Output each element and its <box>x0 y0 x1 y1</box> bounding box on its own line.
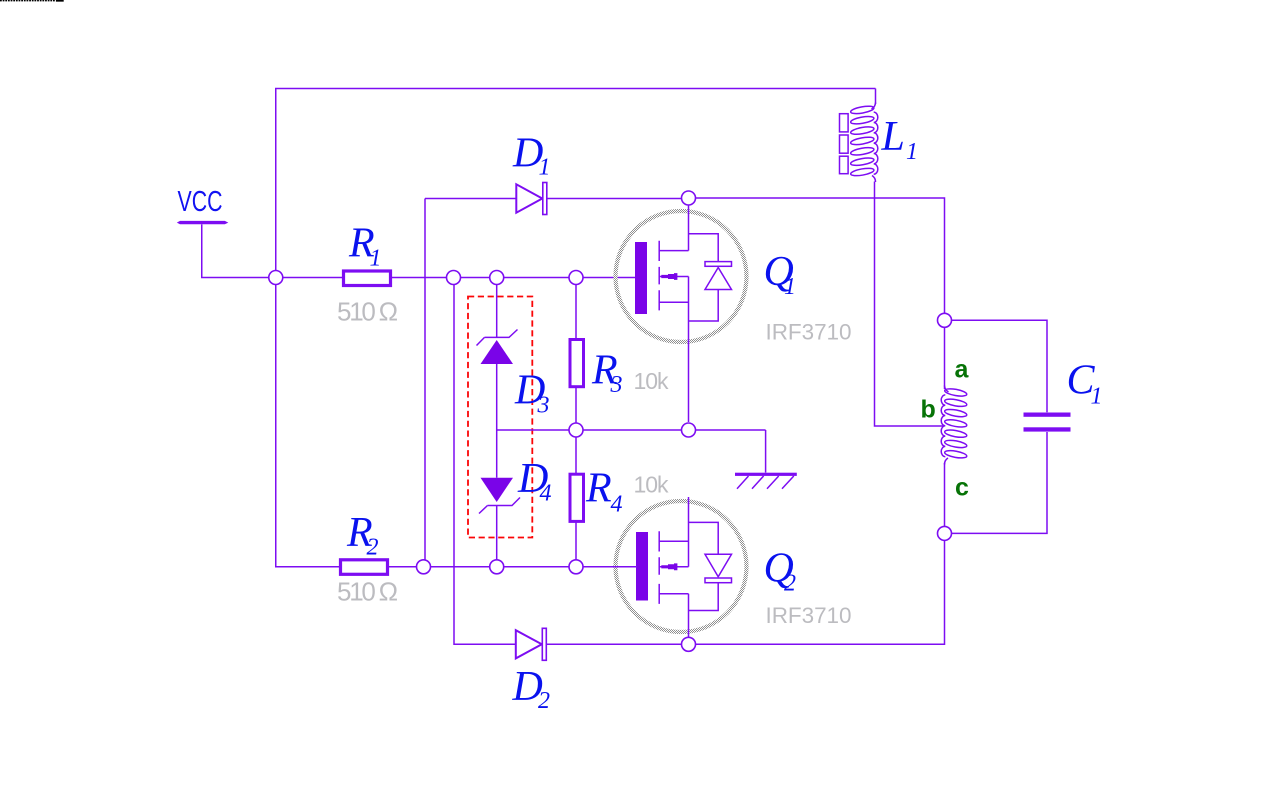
resistor R4 <box>570 430 669 567</box>
wire Q2 drain to bottom row <box>688 631 690 644</box>
node Q2 gate / R4 bottom <box>569 560 583 574</box>
zener D3 <box>477 285 550 430</box>
node winding bottom <box>938 526 952 540</box>
node Q1 drain top <box>682 191 696 205</box>
wire D2 anode riser <box>454 285 516 644</box>
node winding top <box>938 313 952 327</box>
svg-text:3: 3 <box>610 372 623 398</box>
wire Q1 gate bus <box>391 277 637 279</box>
svg-text:10k: 10k <box>634 368 670 394</box>
svg-text:510 Ω: 510 Ω <box>337 297 398 327</box>
svg-text:2: 2 <box>784 571 796 597</box>
svg-text:b: b <box>921 396 936 424</box>
zener pair dashed box <box>468 297 532 538</box>
inductor L1 <box>840 89 919 183</box>
wire Q2 gate bus <box>388 566 637 568</box>
wire D1 anode down to Q2 gate bus <box>424 199 426 567</box>
svg-text:1: 1 <box>539 155 551 181</box>
wire R1 left lead <box>283 277 343 279</box>
svg-text:c: c <box>955 474 969 502</box>
wire bottom row to right bus <box>696 540 945 644</box>
wire center row <box>497 429 766 431</box>
node mid Q1/Q2 <box>682 423 696 437</box>
capacitor C1 <box>952 320 1103 533</box>
wire VCC node to R2 <box>276 278 341 567</box>
svg-text:VCC: VCC <box>178 186 223 218</box>
svg-text:2: 2 <box>367 535 379 561</box>
resistor R2 <box>337 510 398 607</box>
svg-text:R: R <box>585 466 612 512</box>
svg-text:1: 1 <box>370 245 382 271</box>
svg-text:510 Ω: 510 Ω <box>337 577 398 607</box>
transistor Q2 <box>616 497 852 632</box>
wire top node to right bus <box>696 198 945 314</box>
zener D4 <box>479 430 552 567</box>
node mid R3/R4 <box>569 423 583 437</box>
power symbol VCC <box>177 186 269 278</box>
svg-text:1: 1 <box>906 139 918 165</box>
svg-text:10k: 10k <box>634 472 670 498</box>
svg-text:2: 2 <box>538 688 550 714</box>
transformer winding a-b-c <box>941 328 967 527</box>
resistor R1 <box>337 221 398 327</box>
resistor R3 <box>570 285 669 430</box>
svg-text:a: a <box>955 356 970 384</box>
diode D1 <box>425 131 682 215</box>
svg-text:4: 4 <box>540 481 552 507</box>
node Q1 gate / zener top <box>490 271 504 285</box>
node Q1 gate / D2 riser <box>447 271 461 285</box>
svg-text:IRF3710: IRF3710 <box>766 320 852 345</box>
svg-text:1: 1 <box>784 274 796 300</box>
wire top bus <box>276 89 876 278</box>
wire Q1 source to mid node <box>688 342 690 422</box>
svg-text:IRF3710: IRF3710 <box>766 603 852 628</box>
node Q1 gate / R3 top <box>569 271 583 285</box>
node Q2 gate / zener bottom <box>490 560 504 574</box>
wire L1 bottom to winding tap b <box>875 182 945 427</box>
node VCC junction <box>269 271 283 285</box>
svg-text:4: 4 <box>611 491 623 517</box>
node Q2 drain bottom <box>682 637 696 651</box>
ground <box>735 430 797 489</box>
svg-text:L: L <box>881 114 905 160</box>
node Q2 gate / D1 riser <box>417 560 431 574</box>
diode D2 <box>512 628 682 714</box>
svg-text:3: 3 <box>537 393 550 419</box>
transistor Q1 <box>616 198 852 345</box>
svg-text:1: 1 <box>1091 383 1103 409</box>
